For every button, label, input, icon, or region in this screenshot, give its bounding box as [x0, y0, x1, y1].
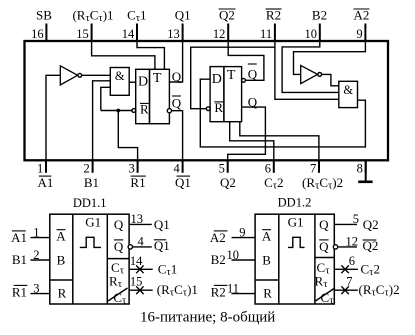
svg-text:Q2: Q2 — [363, 217, 379, 232]
DD1.1 output Ct (pin 14) — [129, 254, 177, 278]
DD1.2 functional block — [255, 195, 335, 306]
wire T2 timing to pin 7 — [240, 122, 319, 160]
wire pin 14 to T1 timing — [137, 41, 164, 69]
pin 13 top — [167, 8, 190, 42]
svg-text:6: 6 — [349, 254, 355, 268]
pin 6 bottom — [264, 160, 283, 191]
svg-text:1: 1 — [37, 161, 43, 175]
wire U1.2 output to AND gate U2.2 input — [322, 74, 339, 85]
svg-text:&: & — [343, 83, 353, 97]
svg-text:16-питание; 8-общий: 16-питание; 8-общий — [140, 310, 275, 326]
pin 2 bottom — [84, 160, 99, 190]
svg-text:5: 5 — [353, 212, 359, 226]
DD1.1 input B (pin 2) — [12, 248, 50, 267]
svg-text:Q: Q — [172, 96, 182, 111]
svg-text:R2: R2 — [211, 285, 226, 300]
junction R net (channel 1) — [116, 109, 120, 113]
svg-text:B1: B1 — [84, 175, 99, 190]
svg-text:13: 13 — [131, 212, 144, 226]
pin 7 bottom — [302, 160, 343, 191]
svg-text:R1: R1 — [130, 175, 145, 190]
svg-text:A2: A2 — [353, 8, 369, 23]
svg-text:B: B — [262, 252, 271, 267]
svg-text:SB: SB — [36, 8, 52, 23]
pin 16 top — [31, 8, 52, 42]
svg-text:DD1.1: DD1.1 — [73, 196, 107, 210]
svg-text:12: 12 — [213, 27, 226, 41]
svg-text:5: 5 — [219, 161, 225, 175]
svg-text:11: 11 — [260, 27, 272, 41]
svg-text:D: D — [212, 72, 222, 87]
svg-text:1: 1 — [33, 225, 39, 239]
wire pin 2 (B1) to AND gate U2.1 input — [93, 81, 111, 160]
flip-flop T1 (channel 1) — [132, 69, 182, 124]
pin 1 bottom — [37, 160, 53, 190]
pin 14 top — [122, 8, 147, 42]
svg-text:B1: B1 — [12, 252, 27, 267]
svg-text:Q1: Q1 — [175, 175, 191, 190]
pin 9 top — [353, 8, 369, 42]
svg-text:16: 16 — [31, 27, 44, 41]
svg-text:Q1: Q1 — [154, 217, 170, 232]
svg-text:A: A — [56, 229, 66, 244]
DD1.1 functional block — [50, 196, 129, 306]
svg-text:4: 4 — [138, 234, 145, 248]
pin 3 bottom — [129, 160, 146, 190]
wire pin 9 to inverter U1.2 input — [294, 41, 366, 74]
DD1.1 output Q (pin 13) — [129, 212, 170, 232]
wire R net to T1 R input — [101, 110, 132, 112]
svg-text:T: T — [227, 68, 236, 83]
svg-text:A2: A2 — [210, 230, 226, 245]
DD1.2 input R (pin 11) — [211, 281, 255, 299]
pin 8 bottom — [357, 160, 366, 175]
pin 4 bottom — [174, 160, 191, 190]
DD1.2 output Ct (pin 6) — [334, 254, 380, 278]
svg-text:Q: Q — [114, 239, 124, 254]
svg-text:Q2: Q2 — [219, 8, 235, 23]
inverter U1.2 (channel 2) — [301, 65, 322, 83]
svg-text:12: 12 — [346, 234, 359, 248]
svg-text:R: R — [58, 285, 67, 300]
svg-text:Q: Q — [248, 67, 258, 82]
wire T2 timing to pin 6 — [230, 122, 274, 160]
svg-text:R1: R1 — [12, 285, 27, 300]
wire T2 Q output to pin 5 — [228, 107, 266, 160]
svg-text:T: T — [153, 71, 162, 86]
svg-text:A1: A1 — [11, 230, 27, 245]
svg-text:R: R — [263, 285, 272, 300]
DD1.1 output RtCt (pin 15) — [129, 275, 198, 299]
AND gate U2.1 (channel 1) — [110, 68, 129, 96]
svg-text:15: 15 — [76, 27, 89, 41]
svg-text:Q2: Q2 — [220, 175, 236, 190]
svg-text:D: D — [138, 75, 148, 90]
svg-text:2: 2 — [84, 161, 90, 175]
DD1.2 output Q-bar (pin 12) — [333, 234, 378, 252]
svg-text:4: 4 — [174, 161, 181, 175]
svg-text:A1: A1 — [37, 175, 53, 190]
pin 12 top — [213, 8, 236, 42]
svg-text:(RτCτ)1: (RτCτ)1 — [72, 8, 113, 25]
svg-text:11: 11 — [227, 281, 239, 295]
svg-text:Q: Q — [319, 217, 329, 232]
svg-text:14: 14 — [122, 27, 135, 41]
pin 11 top — [260, 8, 281, 42]
wire pin 1 to inverter U1.1 input — [46, 75, 60, 160]
svg-text:7: 7 — [346, 275, 352, 289]
wire pin 10 (B2) to AND gate U2.2 input — [282, 41, 339, 92]
AND gate U2.2 (channel 2) — [339, 81, 358, 107]
svg-text:A: A — [262, 229, 272, 244]
IC DD1 outline — [25, 41, 389, 160]
svg-text:Q: Q — [319, 239, 329, 254]
svg-text:2: 2 — [33, 248, 39, 262]
DD1.2 input A (pin 9) — [210, 225, 255, 245]
svg-text:(RτCτ)1: (RτCτ)1 — [157, 282, 198, 299]
inverter U1.1 (channel 1) — [60, 66, 81, 85]
svg-text:3: 3 — [33, 281, 39, 295]
DD1.2 input B (pin 10) — [211, 248, 255, 267]
svg-text:G1: G1 — [85, 214, 101, 229]
svg-text:13: 13 — [167, 27, 180, 41]
wire pin 12 to T2 Q-bar output — [228, 41, 264, 80]
svg-text:10: 10 — [305, 27, 318, 41]
svg-text:8: 8 — [357, 161, 363, 175]
wire R net branch to T2 R input — [191, 47, 275, 108]
wire U2.2 output to T2 D input — [200, 79, 365, 147]
svg-text:6: 6 — [265, 161, 271, 175]
wire T1 Q output to pin 13 — [169, 41, 182, 82]
svg-text:9: 9 — [239, 225, 245, 239]
wire U2.1 output to T1 D input — [129, 81, 136, 83]
wire T1 Q-bar output to pin 4 — [172, 111, 183, 160]
svg-text:G1: G1 — [288, 214, 304, 229]
svg-text:(RτCτ)2: (RτCτ)2 — [302, 175, 343, 192]
svg-text:7: 7 — [310, 161, 316, 175]
ground (pin 8) — [358, 160, 372, 182]
pin 15 top — [72, 8, 113, 42]
wire R net feedback to U2.1 input — [101, 87, 111, 110]
svg-text:R2: R2 — [266, 8, 281, 23]
svg-text:Q1: Q1 — [175, 8, 191, 23]
wire pin 11 (R2) to AND gate U2.2 input — [275, 41, 339, 99]
pin 5 bottom — [219, 160, 236, 190]
DD1.1 input A (pin 1) — [11, 225, 50, 245]
flip-flop T2 (channel 2) — [206, 64, 258, 122]
wire pin 3 (R1) riser — [118, 111, 137, 160]
svg-text:(RτCτ)2: (RτCτ)2 — [359, 282, 400, 299]
wire pin 15 to T1 timing — [92, 41, 155, 69]
svg-text:B2: B2 — [211, 252, 226, 267]
svg-text:B: B — [57, 252, 66, 267]
svg-text:&: & — [115, 69, 125, 83]
wire U1.1 output to AND gate U2.1 input — [82, 74, 111, 76]
DD1.1 input R (pin 3) — [12, 281, 50, 299]
svg-text:DD1.2: DD1.2 — [278, 195, 312, 209]
DD1.2 output RtCt (pin 7) — [334, 275, 399, 299]
DD1.1 output Q-bar (pin 4) — [128, 234, 170, 252]
svg-text:Q: Q — [114, 217, 124, 232]
svg-text:9: 9 — [356, 27, 362, 41]
pin 10 top — [305, 8, 328, 42]
DD1.2 output Q (pin 5) — [334, 212, 378, 232]
svg-text:B2: B2 — [312, 8, 327, 23]
svg-text:10: 10 — [227, 248, 240, 262]
svg-text:3: 3 — [129, 161, 135, 175]
